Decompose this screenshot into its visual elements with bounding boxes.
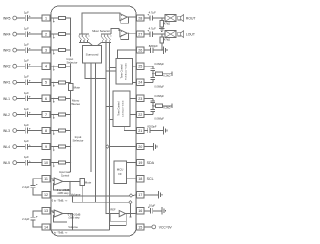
svg-text:0 to -79dB, -∞: 0 to -79dB, -∞ bbox=[52, 231, 68, 234]
pin 18 box bbox=[137, 176, 144, 182]
capacitor C9 1uF (INL4 input coupling) bbox=[24, 144, 26, 150]
wire lower rail to REF bbox=[73, 196, 130, 202]
svg-text:1µF: 1µF bbox=[24, 43, 29, 47]
pin 27 box bbox=[137, 31, 144, 37]
input selector switch row 2 bbox=[53, 34, 54, 35]
svg-text:Tone Control: Tone Control bbox=[120, 64, 123, 79]
wire volume tap stage 2 bbox=[72, 214, 74, 230]
wire to pin 12 external loop bbox=[33, 188, 42, 195]
svg-text:6.2kΩ: 6.2kΩ bbox=[163, 74, 170, 78]
svg-text:INR1: INR1 bbox=[3, 81, 11, 85]
wire pin 27 to cap bbox=[144, 33, 150, 35]
svg-text:7: 7 bbox=[45, 113, 47, 117]
wire mixer group rails bbox=[79, 41, 89, 43]
capacitor 4.7uF (pin 28) bbox=[149, 15, 151, 20]
svg-text:1µF: 1µF bbox=[24, 123, 29, 127]
wire resistor row 8 to bus bbox=[65, 130, 70, 132]
svg-text:INL3: INL3 bbox=[3, 129, 10, 133]
svg-text:9: 9 bbox=[45, 145, 47, 149]
pin 6 box bbox=[42, 95, 50, 101]
resistor row 8 (input) bbox=[54, 130, 59, 132]
wire INR3 to C3 bbox=[17, 49, 26, 51]
pin 10 box bbox=[42, 160, 50, 166]
input selector switch row 1 bbox=[53, 17, 54, 18]
svg-text:INR4: INR4 bbox=[3, 33, 11, 37]
wire INR1 to C5 bbox=[17, 81, 26, 83]
pin 24 box bbox=[137, 79, 144, 85]
wire resistor row 10 to bus bbox=[65, 162, 70, 164]
svg-text:Surround: Surround bbox=[86, 53, 99, 57]
svg-text:6.2kΩ: 6.2kΩ bbox=[163, 106, 170, 110]
capacitor 10uF (pin 16) bbox=[149, 208, 151, 213]
svg-text:0.068µF: 0.068µF bbox=[154, 84, 164, 88]
wire op-amp to pin 27 bbox=[127, 32, 137, 34]
wire MCU to pin 19 SDA bbox=[126, 162, 137, 164]
resistor row 5 (input) bbox=[54, 81, 59, 83]
svg-text:17: 17 bbox=[138, 193, 142, 197]
svg-text:14: 14 bbox=[44, 225, 48, 229]
mixer selector switches (2 groups of 3) bbox=[79, 36, 80, 37]
pin 13 box bbox=[42, 208, 50, 214]
svg-text:28: 28 bbox=[138, 16, 142, 20]
svg-text:INR3: INR3 bbox=[3, 49, 11, 53]
wire cap to LOUT node bbox=[153, 33, 166, 35]
wire C9 to pin 9 bbox=[28, 146, 43, 148]
wire resistor row 7 to bus bbox=[65, 113, 70, 115]
wire INR2 to C4 bbox=[17, 65, 26, 67]
wire surround out right branch bbox=[94, 63, 96, 202]
wire pin 6 into IC bbox=[50, 97, 54, 99]
speaker LOUT bbox=[178, 32, 181, 36]
pin 15 box bbox=[137, 224, 144, 230]
svg-text:4.7µF: 4.7µF bbox=[149, 27, 156, 31]
wire tone Lch to pin 23 bbox=[130, 97, 137, 99]
svg-text:22: 22 bbox=[138, 113, 142, 117]
svg-text:2.2µF: 2.2µF bbox=[22, 185, 29, 189]
svg-text:10µF: 10µF bbox=[149, 203, 156, 207]
mute switch box (bus) bbox=[68, 84, 73, 91]
svg-text:11: 11 bbox=[44, 177, 48, 181]
pin 12 box bbox=[42, 192, 50, 198]
svg-text:Rch Bass/ Treble: Rch Bass/ Treble bbox=[125, 62, 128, 79]
op-amp input gain stage 1 bbox=[54, 178, 63, 185]
wire pin 3 into IC bbox=[50, 49, 54, 51]
wire pin 26 to tone block bbox=[118, 50, 136, 59]
svg-text:SCL: SCL bbox=[147, 177, 154, 181]
svg-text:15: 15 bbox=[138, 225, 142, 229]
wire INL3 to C8 bbox=[17, 130, 26, 132]
wire C10 to pin 10 bbox=[28, 162, 43, 164]
op-amp U3 output buffer pin 27 bbox=[120, 30, 127, 37]
svg-text:Input Gain: Input Gain bbox=[59, 170, 72, 174]
wire volume rail pin 12 to pin 17 bbox=[50, 195, 130, 197]
node junction 25/24 bbox=[152, 73, 153, 74]
node VCC terminal bbox=[152, 225, 156, 229]
pin 19 box bbox=[137, 160, 144, 166]
pin 26 box bbox=[137, 47, 144, 53]
capacitor 0.068uF upper (pin 25) bbox=[152, 66, 154, 69]
pin 5 box bbox=[42, 79, 50, 85]
block Tone Control Lch Bass/Treble bbox=[113, 91, 130, 126]
svg-text:4.7µF: 4.7µF bbox=[149, 10, 156, 14]
svg-text:Lch Bass/ Treble: Lch Bass/ Treble bbox=[122, 100, 125, 117]
svg-text:24: 24 bbox=[138, 81, 142, 85]
resistor row 2 (input) bbox=[54, 33, 59, 35]
svg-text:27: 27 bbox=[138, 33, 142, 37]
wire pin 17 to ground bbox=[144, 194, 158, 196]
svg-text:20: 20 bbox=[138, 145, 142, 149]
svg-text:SDA: SDA bbox=[147, 161, 155, 165]
wire bottom rail pin 14 (volume 2) bbox=[50, 229, 110, 231]
capacitor C5 1uF (INR1 input coupling) bbox=[24, 80, 26, 86]
pin 28 box bbox=[137, 15, 144, 21]
svg-text:Mute: Mute bbox=[74, 86, 81, 90]
wire pin 13 external loop bbox=[33, 211, 42, 217]
pin 21 box bbox=[137, 127, 144, 133]
svg-text:0 to -79dB, -∞: 0 to -79dB, -∞ bbox=[52, 199, 68, 202]
svg-text:19: 19 bbox=[138, 161, 142, 165]
capacitor C8 1uF (INL3 input coupling) bbox=[24, 128, 26, 134]
wire resistor row 2 to bus bbox=[65, 33, 70, 35]
input selector switch row 6 bbox=[53, 98, 54, 99]
terminal bar (25/24) bbox=[171, 72, 173, 76]
op-amp input gain stage 2 bbox=[54, 210, 63, 217]
ground (pin 20) bbox=[153, 143, 155, 151]
pin 4 box bbox=[42, 63, 50, 69]
terminal bar (23/22) bbox=[171, 104, 173, 108]
pin 1 box bbox=[42, 15, 50, 21]
capacitor C11 2.2uF between pins 11 and 12 bbox=[31, 185, 36, 187]
svg-text:1µF: 1µF bbox=[24, 10, 29, 14]
wire pin 20 to bus (diamond) bbox=[109, 146, 137, 148]
svg-text:Tone Control: Tone Control bbox=[117, 101, 120, 116]
pin 23 box bbox=[137, 95, 144, 101]
wire MCU to pin 18 SCL bbox=[126, 178, 137, 180]
wire C1 to pin 1 bbox=[28, 17, 43, 19]
resistor 6.2k (23/22 network) bbox=[153, 105, 156, 107]
resistor row 7 (input) bbox=[54, 113, 59, 115]
wire C7 to pin 7 bbox=[28, 113, 43, 115]
capacitor C2 1uF (INR4 input coupling) bbox=[24, 31, 26, 37]
svg-text:MCU: MCU bbox=[117, 168, 124, 172]
wire bus D to tone Rch (upper) bbox=[109, 67, 116, 69]
wire cap to ground bar bbox=[153, 49, 163, 51]
wire gain stage 1 feedback bbox=[53, 183, 70, 190]
svg-text:ROUT: ROUT bbox=[186, 16, 196, 20]
ground (ROUT load) bbox=[159, 27, 164, 29]
wire pin 2 into IC bbox=[50, 33, 54, 35]
svg-text:8: 8 bbox=[45, 129, 47, 133]
wire pin 8 into IC bbox=[50, 130, 54, 132]
wire pin 1 into IC bbox=[50, 17, 54, 19]
wire C2 to pin 2 bbox=[28, 33, 43, 35]
pin 9 box bbox=[42, 144, 50, 150]
capacitor 8200pF (pin 26) bbox=[150, 47, 152, 52]
wire REF out to pin 16 bbox=[126, 213, 138, 215]
wire INR5 to C1 bbox=[17, 17, 26, 19]
svg-text:VCC=9V: VCC=9V bbox=[159, 225, 173, 229]
svg-text:47kΩ: 47kΩ bbox=[164, 21, 170, 25]
svg-text:/2dB step: /2dB step bbox=[69, 216, 81, 220]
svg-text:INR2: INR2 bbox=[3, 65, 11, 69]
wire pin 4 into IC bbox=[50, 65, 54, 67]
svg-text:INR5: INR5 bbox=[3, 16, 11, 20]
svg-text:1µF: 1µF bbox=[24, 59, 29, 63]
input selector switch row 10 bbox=[53, 162, 54, 163]
node diamond at pin 17 bbox=[129, 194, 132, 197]
block MCU I/F bbox=[114, 161, 126, 183]
svg-text:13: 13 bbox=[44, 209, 48, 213]
resistor row 4 (input) bbox=[54, 65, 59, 67]
node diamond REF top bbox=[129, 201, 132, 204]
wire mute drop bbox=[81, 186, 83, 203]
wire pin 25 to network bbox=[144, 65, 153, 67]
pin 22 box bbox=[137, 111, 144, 117]
wire pin 23 to network bbox=[144, 97, 153, 99]
wire op-amp to pin 28 bbox=[127, 16, 137, 18]
node junction 23/22 bbox=[152, 105, 153, 106]
svg-text:0.068µF: 0.068µF bbox=[154, 116, 164, 120]
wire bus D to tone Lch (lower) bbox=[109, 119, 113, 121]
svg-text:25: 25 bbox=[138, 65, 142, 69]
wire cap to ground bbox=[153, 210, 162, 212]
wire gain out stage 2 bbox=[63, 213, 73, 215]
wire pin 11 into gain stage bbox=[50, 179, 54, 181]
wire resistor to ground bbox=[161, 27, 163, 28]
resistor row 6 (input) bbox=[54, 97, 59, 99]
ground (pin 16) bbox=[161, 207, 163, 215]
resistor 47k (pin 27 load) bbox=[161, 34, 163, 37]
resistor row 9 (input) bbox=[54, 146, 59, 148]
wire op-amp U3 feedback bbox=[121, 33, 129, 39]
wire bus D (mixer to bottom rail) bbox=[108, 42, 110, 229]
pin 14 box bbox=[42, 224, 50, 230]
svg-text:6: 6 bbox=[45, 97, 47, 101]
speaker ROUT bbox=[178, 16, 181, 20]
wire tone Lch bottom to pin 21 bbox=[124, 126, 137, 130]
capacitor C13 2.2uF between pins 13 and 14 bbox=[31, 217, 36, 219]
svg-text:1µF: 1µF bbox=[24, 91, 29, 95]
capacitor C3 1uF (INR3 input coupling) bbox=[24, 47, 26, 53]
wire INR4 to C2 bbox=[17, 33, 26, 35]
svg-text:1µF: 1µF bbox=[24, 27, 29, 31]
wire pin 26 to cap bbox=[144, 49, 151, 51]
svg-text:Mute: Mute bbox=[85, 180, 92, 184]
wire INL2 to C7 bbox=[17, 113, 26, 115]
ground (pin 21) bbox=[162, 127, 164, 135]
svg-text:18: 18 bbox=[138, 177, 142, 181]
svg-text:8200pF: 8200pF bbox=[147, 124, 156, 128]
pin 20 box bbox=[137, 144, 144, 150]
wire C5 to pin 5 bbox=[28, 81, 43, 83]
pin 2 box bbox=[42, 31, 50, 37]
capacitor 8200pF (pin 21) bbox=[147, 128, 149, 133]
svg-text:1µF: 1µF bbox=[24, 139, 29, 143]
wire pin 7 into IC bbox=[50, 113, 54, 115]
svg-text:REF: REF bbox=[110, 207, 116, 211]
wire volume tap stage 1 bbox=[69, 181, 71, 195]
label Input Selector (upper) bbox=[65, 56, 77, 63]
wire to pin 14 external loop bbox=[33, 220, 42, 227]
wire op-amp U2 feedback bbox=[121, 17, 129, 23]
pin 25 box bbox=[137, 63, 144, 69]
svg-text:10: 10 bbox=[44, 161, 48, 165]
svg-text:Volume: Volume bbox=[68, 225, 78, 229]
wire INL4 to C9 bbox=[17, 146, 26, 148]
wire input-select bus (vertical) bbox=[70, 18, 72, 172]
svg-text:0.068µF: 0.068µF bbox=[154, 94, 164, 98]
svg-text:LOUT: LOUT bbox=[186, 32, 195, 36]
svg-text:1µF: 1µF bbox=[24, 75, 29, 79]
wire pin 5 into IC bbox=[50, 81, 54, 83]
wire pin 15 to VCC terminal bbox=[144, 226, 152, 228]
input selector switch row 3 bbox=[53, 50, 54, 51]
svg-text:3: 3 bbox=[45, 49, 47, 53]
svg-text:8200pF: 8200pF bbox=[149, 44, 158, 48]
pin 7 box bbox=[42, 111, 50, 117]
wire pin 16 to cap bbox=[144, 210, 150, 212]
wire resistor row 1 to bus bbox=[65, 17, 70, 19]
capacitor 0.068uF upper (pin 23) bbox=[152, 98, 154, 101]
input selector switch row 8 bbox=[53, 130, 54, 131]
capacitor C10 1uF (INL5 input coupling) bbox=[24, 160, 26, 166]
svg-text:2: 2 bbox=[45, 33, 47, 37]
block Surround bbox=[83, 46, 102, 63]
wire C4 to pin 4 bbox=[28, 65, 43, 67]
svg-text:Mixer Selector: Mixer Selector bbox=[92, 29, 110, 33]
op-amp U2 output buffer pin 28 bbox=[120, 14, 127, 21]
wire pin 17 stub bbox=[133, 194, 138, 197]
svg-text:16: 16 bbox=[138, 209, 142, 213]
capacitor C6 1uF (INL1 input coupling) bbox=[24, 96, 26, 102]
capacitor C4 1uF (INR2 input coupling) bbox=[24, 63, 26, 69]
wire gain out to mute bbox=[63, 180, 80, 182]
wire C8 to pin 8 bbox=[28, 130, 43, 132]
svg-text:1µF: 1µF bbox=[24, 107, 29, 111]
svg-text:47kΩ: 47kΩ bbox=[164, 38, 170, 42]
wire C3 to pin 3 bbox=[28, 49, 43, 51]
wire pin 13 into gain stage bbox=[50, 211, 54, 213]
wire resistor row 9 to bus bbox=[65, 146, 70, 148]
svg-text:0.068µF: 0.068µF bbox=[154, 62, 164, 66]
svg-text:2.2µF: 2.2µF bbox=[22, 217, 29, 221]
capacitor C7 1uF (INL2 input coupling) bbox=[24, 112, 26, 118]
resistor row 10 (input) bbox=[54, 162, 59, 164]
wire pin 20 to ground bbox=[144, 146, 153, 148]
wire right mixer rail to op-amp U3 bbox=[111, 29, 119, 34]
resistor row 3 (input) bbox=[54, 49, 59, 51]
wire tone Rch to pin 24 bbox=[132, 81, 137, 83]
wire surround out left branch bbox=[85, 63, 106, 79]
pin 17 box bbox=[137, 192, 144, 198]
input selector switch row 7 bbox=[53, 114, 54, 115]
wire REF rail bbox=[109, 224, 126, 226]
input selector switch row 9 bbox=[53, 146, 54, 147]
wire INL1 to C6 bbox=[17, 97, 26, 99]
input selector switch row 5 bbox=[53, 82, 54, 83]
wire tone Lch to pin 22 bbox=[130, 113, 137, 115]
svg-text:INL4: INL4 bbox=[3, 145, 10, 149]
wire resistor row 3 to bus bbox=[65, 49, 70, 51]
input selector switch row 4 bbox=[53, 66, 54, 67]
pin 8 box bbox=[42, 127, 50, 133]
wire bus C (mixer to volume/ref) bbox=[105, 42, 107, 213]
wire pin 10 into IC bbox=[50, 162, 54, 164]
svg-text:INL2: INL2 bbox=[3, 113, 10, 117]
wire pin 22 to network bbox=[144, 113, 153, 115]
svg-text:Selector: Selector bbox=[72, 139, 83, 143]
IC body U1 (28-pin sound processor) bbox=[51, 6, 136, 236]
mute box (gain stage 1) bbox=[80, 178, 84, 185]
capacitor C1 1uF (INR5 input coupling) bbox=[24, 15, 26, 21]
svg-text:INL5: INL5 bbox=[3, 161, 10, 165]
svg-text:21: 21 bbox=[138, 129, 142, 133]
op-amp REF buffer bbox=[106, 213, 119, 215]
capacitor 0.068uF lower (pin 22) bbox=[151, 109, 156, 111]
svg-text:I/F: I/F bbox=[118, 172, 122, 176]
capacitor 0.068uF lower (pin 24) bbox=[151, 76, 156, 78]
jack box ROUT bbox=[165, 15, 176, 22]
wire REF feedback to rail bbox=[125, 214, 127, 226]
wire REF feedback bbox=[110, 214, 126, 222]
pin 3 box bbox=[42, 47, 50, 53]
wire resistor row 5 to bus bbox=[65, 81, 70, 83]
wire diamond to REF junction bbox=[129, 204, 131, 217]
wire pin 21 to cap bbox=[144, 130, 148, 132]
wire top feed line to op-amp U2 bbox=[82, 13, 120, 34]
capacitor 4.7uF (pin 27) bbox=[149, 31, 151, 36]
svg-text:26: 26 bbox=[138, 49, 142, 53]
wire pin 9 into IC bbox=[50, 146, 54, 148]
svg-text:INL1: INL1 bbox=[3, 97, 10, 101]
ground (pin 26 node) bbox=[162, 46, 164, 54]
svg-text:23: 23 bbox=[138, 97, 142, 101]
pin 11 box bbox=[42, 176, 50, 182]
wire pin 28 to cap bbox=[144, 17, 150, 19]
wire surround out mid branch bbox=[90, 63, 92, 172]
wire INL5 to C10 bbox=[17, 162, 26, 164]
jack box LOUT bbox=[165, 31, 176, 38]
wire bus C to tone Lch (upper) bbox=[106, 106, 113, 108]
svg-text:4: 4 bbox=[45, 65, 47, 69]
wire C6 to pin 6 bbox=[28, 97, 43, 99]
svg-text:/Stereo: /Stereo bbox=[71, 102, 81, 106]
wire funnel into Surround bbox=[89, 42, 93, 45]
wire bus C to tone Rch (lower) bbox=[106, 70, 116, 72]
svg-text:5: 5 bbox=[45, 81, 47, 85]
wire mixer group top rails bbox=[79, 33, 89, 35]
wire tone Rch to pin 25 bbox=[132, 65, 137, 67]
svg-text:/2dB step: /2dB step bbox=[58, 191, 70, 195]
wire gain stage 2 feedback bbox=[53, 215, 67, 222]
svg-text:1µF: 1µF bbox=[24, 155, 29, 159]
resistor 6.2k (25/24 network) bbox=[153, 73, 156, 75]
wire pin 11 external loop bbox=[33, 179, 42, 185]
block Tone Control Rch Bass/Treble bbox=[116, 59, 132, 85]
svg-text:Control: Control bbox=[61, 174, 70, 178]
svg-text:1: 1 bbox=[45, 16, 47, 20]
wire resistor row 4 to bus bbox=[65, 65, 70, 67]
svg-text:12: 12 bbox=[44, 193, 48, 197]
wire cap to ROUT node bbox=[153, 17, 166, 19]
resistor 47k (pin 28 load) bbox=[161, 18, 163, 21]
wire cap to ground bbox=[150, 130, 163, 132]
wire pin 24 to network bbox=[144, 81, 153, 83]
wire resistor 47k to pin26 node bbox=[161, 43, 163, 50]
wire resistor row 6 to bus bbox=[65, 97, 70, 99]
ground (pin 17) bbox=[158, 191, 160, 199]
resistor row 1 (input) bbox=[54, 17, 59, 19]
